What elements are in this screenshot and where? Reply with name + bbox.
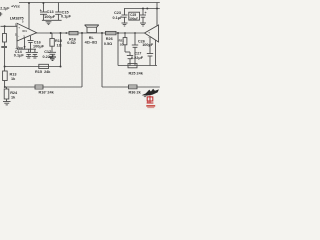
ground under C13/C15 bus: [46, 21, 52, 23]
node before R16: [65, 32, 67, 34]
node line2 left: [4, 86, 6, 88]
node output feedback tap x60.5: [60, 32, 62, 34]
wire IC1 -in drop: [16, 35, 18, 49]
resistor R15 1ohm zobel: [51, 33, 53, 39]
ground under C24: [122, 22, 128, 24]
resistor R26 0.5ohm: [106, 31, 117, 34]
wire ground bus of C13/C15: [42, 19, 62, 21]
ground bottom left: [3, 101, 11, 103]
resistor R12 input bias: [4, 26, 6, 33]
wire line2 left segment: [5, 86, 82, 88]
resistor R21 1ohm zobel right: [124, 33, 126, 38]
logo swoosh lower tick: [143, 96, 146, 97]
logo swoosh black: [142, 89, 159, 96]
resistor R16 0.5ohm: [69, 31, 78, 34]
wire output line: [36, 32, 145, 34]
ground bar under R12: [1, 46, 7, 48]
node on rail at x44: [42, 2, 44, 4]
wire line2 right segment: [102, 86, 160, 88]
resistor R36 2k on line2 right: [129, 85, 138, 89]
wire feedback row1 left: [5, 66, 61, 68]
op-amp U1 LM1875 triangle: [17, 23, 37, 41]
capacitor C27 0.22uF: [129, 52, 131, 56]
capacitor C14 0.1uF: [28, 49, 30, 52]
capacitor C13 100uF: [42, 3, 44, 13]
wire input line to +in: [1, 25, 18, 27]
node at x125: [124, 32, 126, 34]
resistor R14 24k feedback: [39, 64, 49, 68]
capacitor C15 0.1uF: [57, 3, 59, 13]
node speaker left: [81, 32, 83, 34]
capacitor C25 100uF electrolytic: [142, 9, 144, 16]
wire -Vcc node line: [17, 48, 36, 50]
node feedback row1 left: [4, 66, 6, 68]
op-amp U2 LM1875 triangle: [145, 25, 159, 42]
resistor R24 1k bottom left: [6, 87, 8, 89]
capacitor C28 right: [149, 37, 151, 54]
capacitor C16 100uF at IC1 bottom: [30, 36, 32, 41]
wire second rail right: [124, 8, 160, 10]
node railB x143: [142, 8, 144, 10]
resistor R27 24k: [128, 64, 137, 68]
wire row1 right (R27 24k row): [118, 65, 157, 67]
ground under C25: [140, 22, 146, 24]
capacitor C17 0.22uF zobel: [49, 51, 56, 53]
node R26 right tap: [117, 32, 119, 34]
node output at x51: [50, 32, 52, 34]
wire jog to C27: [125, 51, 130, 53]
resistor R17 24k on line2 left: [35, 85, 43, 89]
logo red url text: [146, 105, 155, 107]
ground under C14: [26, 55, 32, 57]
wire rail connector: [156, 3, 158, 9]
wire left vertical bus: [4, 48, 6, 71]
ground under C12: [32, 55, 38, 57]
node input junction: [4, 25, 6, 27]
node on rail at x26.5: [28, 2, 30, 4]
wire IC1 -Vcc pin drop: [24, 38, 26, 49]
wire IC2 input drop: [155, 40, 157, 66]
capacitor C12: [34, 49, 36, 52]
speaker RL: [87, 27, 96, 32]
wire feedback drop x60.5: [60, 33, 62, 67]
text labels: [0, 4, 154, 99]
node C26 tap: [134, 32, 136, 34]
node speaker right: [101, 32, 103, 34]
wire IC1 +Vcc pin drop: [28, 3, 30, 30]
node on -Vcc drop: [24, 46, 26, 48]
wire drop to feedback row right: [117, 33, 119, 66]
wire IC2 power pin: [156, 9, 158, 26]
capacitor C26 100uF: [134, 33, 136, 45]
node railB x157: [156, 8, 158, 10]
ground under C17: [49, 57, 56, 60]
wire speaker right drop: [101, 33, 103, 87]
wire +Vcc top rail: [19, 2, 160, 4]
wire speaker left drop: [81, 33, 83, 87]
resistor R13 1k: [3, 71, 8, 81]
label box C25: [129, 12, 140, 20]
node row1 right end: [60, 66, 62, 68]
logo red character: [147, 96, 154, 104]
node railB x147: [146, 8, 148, 10]
capacitor C24 0.1uF right: [124, 9, 126, 16]
input connector mark at edge: [0, 12, 2, 16]
